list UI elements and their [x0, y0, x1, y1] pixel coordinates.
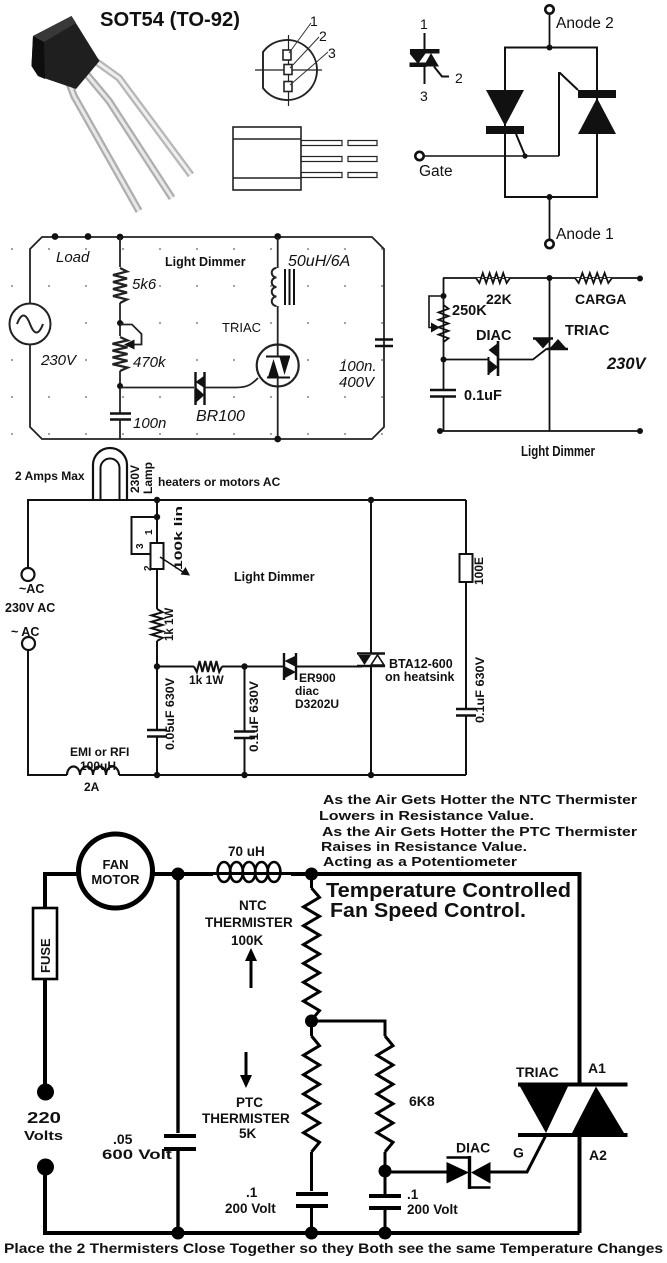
- wire terminal to bottom: [45, 1172, 580, 1233]
- node NTC bottom: [305, 1015, 318, 1028]
- svg-text:D3202U: D3202U: [295, 697, 339, 711]
- svg-text:BR100: BR100: [196, 408, 245, 425]
- svg-text:Light Dimmer: Light Dimmer: [234, 570, 315, 584]
- potentiometer 470k: [113, 337, 128, 371]
- node 6K8 bottom: [384, 1152, 387, 1171]
- svg-text:400V: 400V: [339, 374, 376, 391]
- wire 1k to node: [156, 641, 158, 730]
- svg-text:Lamp: Lamp: [141, 462, 155, 494]
- svg-text:5k6: 5k6: [132, 276, 157, 293]
- node triac top: [368, 497, 374, 503]
- triac BTA12-600: [357, 654, 385, 667]
- side view leads: [301, 141, 377, 178]
- svg-text:470k: 470k: [133, 354, 167, 371]
- wire cap branch: [176, 874, 179, 1133]
- inductor 50uH/6A: [272, 268, 277, 306]
- svg-text:200 Volt: 200 Volt: [225, 1201, 276, 1216]
- pot pin3 loop wire: [132, 517, 158, 554]
- SCR right gate lead: [559, 73, 578, 156]
- node top right branch: [274, 233, 281, 240]
- bottom view pin 2 pad: [284, 65, 292, 75]
- svg-text:ER900: ER900: [299, 671, 336, 685]
- wire to cap node: [222, 666, 283, 668]
- svg-text:TRIAC: TRIAC: [222, 320, 261, 335]
- node NTC top: [305, 868, 318, 881]
- svg-text:1: 1: [310, 13, 318, 29]
- node 5k6/pot: [117, 320, 123, 326]
- fuse: [33, 908, 57, 979]
- svg-text:0.1uF 630V: 0.1uF 630V: [247, 681, 261, 752]
- capacitor 0.1uF: [430, 390, 456, 397]
- svg-text:THERMISTER: THERMISTER: [202, 1111, 290, 1126]
- terminal 220V top: [37, 1084, 54, 1101]
- svg-text:Load: Load: [56, 249, 90, 266]
- svg-text:6K8: 6K8: [409, 1093, 435, 1109]
- svg-text:2: 2: [455, 70, 463, 86]
- svg-text:100K: 100K: [231, 933, 264, 948]
- svg-text:FUSE: FUSE: [38, 938, 53, 973]
- svg-text:Anode 2: Anode 2: [556, 15, 614, 32]
- capacitor .1 200V right: [384, 1171, 387, 1196]
- svg-text:Acting as a Potentiometer: Acting as a Potentiometer: [323, 854, 517, 869]
- svg-text:FAN: FAN: [103, 857, 129, 872]
- svg-text:Anode 1: Anode 1: [556, 226, 614, 243]
- resistor PTC thermister: [310, 1021, 313, 1036]
- svg-text:230V: 230V: [606, 355, 648, 373]
- resistor 22K: [476, 273, 510, 283]
- svg-text:22K: 22K: [486, 291, 512, 307]
- junction box bottom: [547, 194, 553, 200]
- capacitor 100n: [110, 414, 131, 420]
- svg-text:Light Dimmer: Light Dimmer: [165, 255, 246, 269]
- svg-text:3: 3: [135, 543, 146, 549]
- svg-text:250K: 250K: [452, 303, 487, 319]
- svg-text:.05: .05: [113, 1131, 133, 1147]
- svg-text:on heatsink: on heatsink: [385, 670, 455, 684]
- svg-text:DIAC: DIAC: [476, 328, 512, 344]
- wire diac to triac gate: [491, 1135, 547, 1172]
- node gate row left: [154, 663, 160, 669]
- svg-text:EMI or RFI: EMI or RFI: [70, 745, 129, 759]
- svg-text:TRIAC: TRIAC: [516, 1064, 559, 1080]
- svg-text:230V: 230V: [40, 352, 78, 369]
- node pot branch: [154, 497, 160, 503]
- diac ER900: [284, 653, 296, 680]
- resistor 5k6: [113, 268, 127, 303]
- sch3 top wire: [28, 500, 466, 568]
- triac pin symbol: [410, 16, 464, 104]
- svg-text:100E: 100E: [472, 557, 486, 585]
- svg-text:G: G: [513, 1145, 524, 1161]
- svg-text:Volts: Volts: [24, 1128, 63, 1143]
- wire node to diac: [444, 359, 490, 361]
- node pot top: [441, 293, 447, 299]
- svg-text:PTC: PTC: [236, 1095, 263, 1110]
- wire node to diac: [120, 387, 194, 389]
- svg-text:As the Air Gets Hotter the NTC: As the Air Gets Hotter the NTC Thermiste…: [323, 792, 637, 807]
- wire 5k6 to pot: [119, 303, 121, 336]
- svg-text:A1: A1: [588, 1060, 606, 1076]
- svg-text:Raises in Resistance Value.: Raises in Resistance Value.: [321, 839, 527, 854]
- sch2 left wire: [443, 278, 445, 390]
- wire top to 5k6: [119, 237, 121, 267]
- node pot/cap/diac: [117, 383, 123, 389]
- title Temperature Controlled Fan Speed Control: [326, 880, 571, 922]
- potentiometer 250K: [439, 305, 449, 342]
- fan motor: [79, 834, 153, 908]
- pin leader lines: [289, 23, 328, 85]
- terminal Gate: [415, 152, 452, 180]
- node bottom: [274, 436, 281, 443]
- TO-92 side view body: [233, 127, 301, 190]
- wire top to inductor: [277, 237, 279, 268]
- arrow up: [250, 958, 253, 988]
- triac big: [518, 1083, 628, 1087]
- TO-92 bottom view outline: [255, 35, 322, 106]
- node top of 5k6: [117, 234, 124, 241]
- wire diac to triac gate: [498, 349, 547, 360]
- svg-text:SOT54 (TO-92): SOT54 (TO-92): [100, 9, 240, 31]
- svg-text:600 Volt: 600 Volt: [102, 1146, 172, 1162]
- terminal Anode 2: [545, 5, 613, 32]
- svg-text:2 Amps Max: 2 Amps Max: [15, 469, 85, 483]
- bottom view pin 3 pad: [284, 82, 292, 92]
- capacitor 0.1uF 630V right: [456, 709, 476, 716]
- svg-text:230V: 230V: [128, 465, 142, 493]
- svg-text:70 uH: 70 uH: [228, 844, 265, 859]
- gate junction: [522, 153, 527, 158]
- svg-text:1: 1: [144, 529, 155, 535]
- resistor 100E (box): [460, 554, 473, 582]
- bottom wire junctions: [172, 1227, 392, 1240]
- node 22K/triac: [547, 275, 553, 281]
- SCR left gate lead: [516, 134, 525, 156]
- resistor NTC thermister: [310, 874, 313, 888]
- resistor 1k 1W horizontal: [194, 661, 222, 672]
- svg-text:2A: 2A: [84, 780, 100, 794]
- wire node to 1k horizontal: [157, 666, 194, 668]
- svg-text:~AC: ~AC: [19, 582, 44, 596]
- capacitor 0.1uF 630V middle: [244, 667, 246, 732]
- svg-text:100n.: 100n.: [339, 358, 377, 375]
- arrow down: [245, 1052, 248, 1078]
- svg-text:3: 3: [328, 45, 336, 61]
- triac vertical wire: [549, 278, 551, 431]
- svg-text:0.1uF: 0.1uF: [464, 388, 502, 404]
- svg-text:Light Dimmer: Light Dimmer: [521, 443, 595, 460]
- sch3 bottom wire: [28, 650, 67, 775]
- potentiometer 100k lin: [151, 543, 164, 569]
- capacitor .05 600V: [164, 1136, 196, 1149]
- svg-text:200 Volt: 200 Volt: [407, 1202, 458, 1217]
- svg-text:DIAC: DIAC: [456, 1140, 490, 1156]
- terminal Anode 1: [545, 226, 613, 248]
- svg-text:Lowers in Resistance Value.: Lowers in Resistance Value.: [319, 808, 534, 823]
- SCR right: [578, 90, 616, 134]
- svg-text:1k 1W: 1k 1W: [164, 608, 176, 641]
- capacitor 0.05uF 630V: [147, 730, 167, 737]
- resistor CARGA: [575, 273, 612, 283]
- schematic1 border: [30, 237, 384, 439]
- sch2 top wire: [443, 277, 640, 279]
- wire pot to 1k: [156, 569, 158, 609]
- box outline: [505, 48, 597, 198]
- node cap branch: [172, 868, 185, 881]
- svg-text:heaters or motors AC: heaters or motors AC: [158, 475, 281, 489]
- triac circle: [257, 345, 299, 387]
- node pot pin1 loop: [154, 514, 160, 520]
- wire motor to coil: [153, 872, 214, 876]
- svg-text:TRIAC: TRIAC: [565, 323, 610, 339]
- svg-text:1: 1: [420, 16, 428, 32]
- triac internals: [266, 357, 290, 378]
- wire 6K8 to diac: [385, 1171, 447, 1174]
- svg-text:3: 3: [420, 88, 428, 104]
- wire diac to triac gate: [296, 666, 362, 668]
- wire box to anode1: [549, 197, 551, 240]
- wire node to 6K8: [312, 1021, 386, 1036]
- AC source 230V: [10, 304, 51, 345]
- wire coil to NTC node: [291, 872, 312, 876]
- svg-text:1k 1W: 1k 1W: [189, 673, 224, 687]
- bottom view pin 1 pad: [283, 50, 291, 60]
- svg-text:5K: 5K: [239, 1126, 257, 1141]
- node cap 0.1uF branch: [241, 663, 247, 669]
- svg-text:A2: A2: [589, 1147, 607, 1163]
- svg-text:100k lin: 100k lin: [173, 506, 185, 570]
- svg-text:MOTOR: MOTOR: [91, 872, 140, 887]
- svg-text:THERMISTER: THERMISTER: [205, 915, 293, 930]
- load terminal dots: [52, 233, 92, 240]
- svg-text:220: 220: [27, 1110, 61, 1127]
- bottom nodes: [154, 772, 374, 778]
- right branch: [465, 500, 467, 554]
- svg-text:NTC: NTC: [239, 898, 267, 913]
- node pot bottom / diac branch: [441, 357, 447, 363]
- svg-text:100uH: 100uH: [80, 759, 116, 773]
- TO-92 package photo: [32, 16, 192, 211]
- diac BR100: [196, 372, 205, 405]
- sch2 bottom terminals: [437, 428, 643, 434]
- svg-text:2: 2: [143, 565, 154, 571]
- svg-text:0.05uF 630V: 0.05uF 630V: [163, 678, 177, 750]
- capacitor 100n 400V: [375, 340, 393, 347]
- sch2 terminal right top: [637, 276, 643, 282]
- wire thru triac: [277, 306, 279, 439]
- gate wire: [424, 155, 559, 157]
- svg-text:Place the 2 Thermisters Close: Place the 2 Thermisters Close Together s…: [4, 1241, 663, 1256]
- note NTC text: [319, 792, 637, 869]
- triac symbol: [533, 339, 568, 350]
- diac DIAC: [497, 341, 500, 376]
- inductor EMI 100uH 2A: [67, 767, 119, 776]
- svg-text:50uH/6A: 50uH/6A: [288, 253, 350, 270]
- diac bottom: [447, 1162, 470, 1184]
- terminal ~AC top: [22, 568, 35, 581]
- wire diac to triac gate: [205, 378, 259, 388]
- SCR left: [486, 90, 524, 134]
- wire PTC to cap: [310, 1152, 313, 1191]
- svg-text:Gate: Gate: [419, 163, 453, 180]
- svg-text:diac: diac: [295, 684, 319, 698]
- svg-text:230V AC: 230V AC: [5, 601, 55, 615]
- wire anode2 to box: [549, 14, 551, 48]
- wire pot to node: [119, 371, 121, 414]
- svg-text:0.1uF 630V: 0.1uF 630V: [473, 657, 487, 723]
- sch2 bottom wire: [440, 430, 640, 432]
- capacitor .1 200V left: [296, 1194, 328, 1206]
- svg-text:100n: 100n: [133, 415, 166, 432]
- svg-text:CARGA: CARGA: [575, 291, 626, 307]
- triac vertical wire: [370, 500, 372, 654]
- resistor 1k 1W vertical: [152, 609, 163, 641]
- frame top right: [312, 874, 580, 1084]
- svg-text:Temperature Controlled: Temperature Controlled: [326, 880, 571, 902]
- junction box top: [547, 45, 553, 51]
- lamp 230V: [93, 448, 127, 499]
- svg-text:.1: .1: [407, 1187, 419, 1202]
- svg-text:As the Air Gets Hotter the PTC: As the Air Gets Hotter the PTC Thermiste…: [322, 824, 637, 839]
- terminal 220V bottom: [37, 1159, 54, 1176]
- svg-text:Fan Speed Control.: Fan Speed Control.: [330, 900, 526, 922]
- svg-text:BTA12-600: BTA12-600: [389, 657, 453, 671]
- svg-text:2: 2: [319, 28, 327, 44]
- resistor 6K8: [377, 1036, 393, 1152]
- wire motor left: [45, 874, 79, 908]
- wire to pot: [156, 500, 158, 543]
- triac right vertical below: [578, 1135, 582, 1233]
- svg-text:.1: .1: [246, 1185, 258, 1200]
- wire fuse to terminal: [43, 979, 47, 1087]
